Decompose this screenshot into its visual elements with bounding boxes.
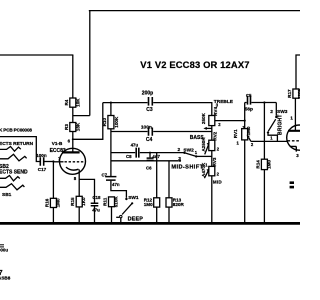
wire C18 to rail [94,206,96,223]
svg-text:10K: 10K [76,98,81,107]
wire R10 bottom lead down [110,129,112,176]
svg-text:ECTS RETURN: ECTS RETURN [0,141,34,147]
capacitor C7 47n [102,172,120,187]
jack contact send lever [0,184,24,190]
svg-text:A250K: A250K [201,137,206,152]
wire R14 vertical [263,103,265,160]
wire plate output to C3 [73,103,103,140]
jack contact return lever [0,154,27,161]
label cut fragment top [0,244,8,252]
svg-text:1M0: 1M0 [55,198,60,207]
wire R14 to rail [263,170,265,223]
resistor R15 [70,196,86,207]
wire main signal to C3 [103,102,148,104]
svg-text:R16: R16 [44,198,49,207]
svg-text:100n: 100n [141,125,152,131]
svg-text:250K: 250K [201,112,206,124]
pot RV2 bass [201,131,220,154]
svg-text:200p: 200p [142,90,153,96]
wire node between R4 and R3 [73,115,90,117]
svg-text:1K0: 1K0 [81,197,86,206]
svg-text:C7: C7 [102,172,108,177]
node plate wire junction [72,138,74,140]
wire C18 branch [79,179,94,202]
svg-text:1M0: 1M0 [144,202,153,207]
svg-text:47n: 47n [112,182,120,187]
switch SW3 BRIGHT [267,103,288,142]
wire R17 to V2 plate [294,98,296,130]
svg-text:DEEP: DEEP [128,217,144,223]
svg-text:C5: C5 [246,93,252,98]
svg-text:R4: R4 [64,99,69,105]
capacitor C3 200p [142,90,153,113]
wire R4 top feed [72,55,74,98]
svg-text:510K: 510K [113,196,118,208]
wire1 C8 to SW2 [140,152,184,154]
svg-text:R10: R10 [102,118,107,127]
wire R15 to rail [78,207,80,223]
svg-text:BRIGHT: BRIGHT [278,114,284,135]
pot RV3 mid [201,157,222,184]
resistor R11 [102,196,118,208]
jack box EFFECTS RETURN [0,137,40,162]
svg-text:RV1: RV1 [233,129,238,138]
svg-text:100K: 100K [114,116,119,128]
triode V1-B [50,139,86,181]
svg-text:1: 1 [195,150,198,155]
triode V2 [287,115,312,188]
wire R11 to rail [111,207,113,223]
node C17 junction [52,160,54,162]
capacitor C4 100n [141,125,153,143]
node C5 wire to R14 line [263,101,265,103]
capacitor C5 56p [245,93,277,113]
wire RV1 top feed [244,103,246,129]
wire C4 to bass pot [153,131,212,133]
wire left HT stub [0,54,73,56]
wire R4-R3 link [72,107,74,122]
node R10 tap [110,102,112,104]
resistor R13 [166,198,184,208]
svg-text:R17: R17 [287,89,292,98]
wire RV1 bottom to rail [244,140,246,223]
svg-text:220K: 220K [297,87,300,99]
svg-text:ECTS SEND: ECTS SEND [0,170,28,176]
wire grid V1-B [53,161,63,163]
jack contact send tip [0,176,20,181]
svg-text:C8: C8 [126,154,132,159]
svg-text:K PCB PC00008: K PCB PC00008 [0,128,32,133]
resistor R17 [287,87,302,99]
svg-text:1M0: 1M0 [266,159,271,168]
resistor R3 [64,122,81,131]
wire vertical from top rail [89,11,91,116]
svg-text:47u: 47u [131,142,139,147]
wire1 mid band [111,152,135,154]
svg-text:RV3: RV3 [212,157,217,166]
svg-text:C6: C6 [146,165,152,170]
svg-text:SW2: SW2 [183,147,194,153]
svg-text:2: 2 [270,109,273,115]
svg-text:47u: 47u [92,208,100,213]
svg-text:SW3: SW3 [277,109,288,115]
svg-text:1: 1 [205,163,208,168]
wire R13 leads [168,161,170,223]
wire RV4 to RV2 [211,126,213,141]
svg-text:1: 1 [290,115,293,120]
svg-text:R3: R3 [64,124,69,130]
resistor R10 [102,116,119,129]
wire R16 drop [52,162,54,199]
resistor R14 [255,159,271,169]
svg-text:2: 2 [217,172,220,177]
svg-text:V1 V2 ECC83 OR 12AX7: V1 V2 ECC83 OR 12AX7 [140,59,249,70]
wire RV3 to rail [211,176,213,223]
label cut fragment bottom [0,268,11,281]
svg-text:SB1: SB1 [2,192,12,198]
node RV4 out join [244,120,246,122]
svg-text:C3: C3 [146,107,153,113]
pot RV4 treble [201,103,221,130]
svg-text:820R: 820R [173,202,185,207]
svg-text:R14: R14 [255,160,260,169]
svg-text:2: 2 [251,142,254,147]
wire SW2 common to tone column [197,155,212,157]
pot RV1 volume [233,125,254,147]
svg-text:3: 3 [178,156,181,162]
wire RV4 out to RV1 [215,120,245,122]
svg-text:8: 8 [74,176,77,181]
svg-text:SW1: SW1 [128,195,139,201]
svg-text:RV4: RV4 [213,107,218,116]
svg-text:2: 2 [178,147,181,153]
svg-text:100n: 100n [36,153,47,158]
svg-text:C18: C18 [92,195,101,200]
svg-text:2: 2 [217,147,220,152]
wire R10 top lead [110,103,112,116]
capacitor C18 47u [91,195,101,213]
svg-text:ASB8: ASB8 [0,276,11,281]
svg-text:MID: MID [213,180,223,185]
wire right HT stub [296,55,300,89]
capacitor C6 4n7 [146,152,161,171]
wire RV1 wiper to V2 grid [251,140,287,142]
jack contact return tip [0,147,21,152]
svg-text:18K: 18K [76,122,81,131]
svg-text:56p: 56p [245,107,253,113]
svg-text:R11: R11 [102,197,107,206]
svg-text:C17: C17 [38,167,47,172]
svg-text:000u: 000u [0,248,8,253]
wire V1-B cathode drop [78,169,80,196]
wire RV2 to RV3 [211,151,213,167]
resistor R12 [144,198,160,208]
switch SW2 MID-SHIFT [171,147,203,171]
svg-text:1M0: 1M0 [246,126,251,135]
svg-text:V1-B: V1-B [52,141,63,146]
wire R3 to plate [72,132,74,153]
wire R12 leads [156,153,158,223]
svg-text:2: 2 [218,122,221,127]
wire C7 to SW1 [111,181,127,198]
capacitor C17 100n [36,153,53,172]
wire C3 to treble pot [153,103,212,116]
wire R16 to rail [52,208,54,224]
wire2 lower band [111,160,179,162]
svg-text:R15: R15 [70,197,75,206]
svg-text:RV2: RV2 [212,131,217,140]
svg-text:3: 3 [296,153,299,158]
svg-text:C4: C4 [146,137,153,143]
ground rail bottom [0,222,300,225]
capacitor C8 47u [126,142,139,158]
svg-text:MID-SHIFT: MID-SHIFT [171,164,203,170]
switch SW1 DEEP [116,195,143,223]
resistor R16 [44,198,60,208]
svg-text:ECC83: ECC83 [50,148,66,154]
svg-text:1: 1 [270,135,273,140]
resistor R4 [64,98,81,107]
wire C4 feed [111,131,148,133]
svg-text:6: 6 [68,139,71,144]
wire top B+ rail [89,10,300,12]
svg-text:1: 1 [237,140,240,145]
